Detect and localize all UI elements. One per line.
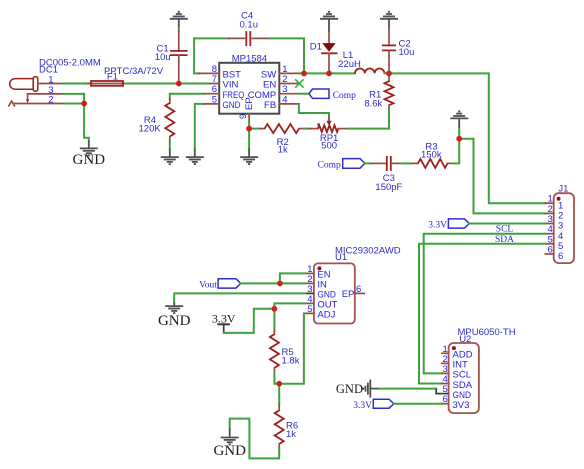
junction SW/C2/R1 [386, 71, 392, 77]
junction R3/GND node (top) [456, 136, 462, 142]
svg-text:6: 6 [356, 284, 361, 295]
junction C1/VIN [176, 81, 182, 87]
svg-text:ADJ: ADJ [317, 310, 335, 321]
U2 pin1 marker dot [452, 346, 456, 350]
junction R5/R6/ADJ [276, 381, 282, 387]
ground below R6 [229, 428, 231, 437]
svg-text:0.1u: 0.1u [240, 20, 259, 31]
MP1584 pin 4 FB stub [279, 103, 299, 105]
diode D1 [321, 32, 337, 73]
svg-text:MP1584: MP1584 [232, 53, 267, 64]
junction R3/GND node [456, 136, 462, 142]
U2 pin 1 ADD stub [442, 352, 449, 354]
wire EP down [248, 122, 250, 129]
wire Comp flag to C3 [365, 162, 372, 164]
svg-text:Comp: Comp [318, 161, 341, 171]
J1 pin1 marker dot [557, 197, 561, 201]
wire junction to R6 [278, 384, 280, 405]
capacitor C3 [372, 156, 402, 171]
svg-text:120K: 120K [139, 124, 162, 135]
junction R5/R6/ADJ (top) [276, 381, 282, 387]
junction C1/VIN (top) [176, 81, 182, 87]
J1 pin 6 stub [545, 253, 553, 255]
svg-text:5: 5 [212, 94, 217, 105]
junction EN/IN (top) [277, 281, 283, 287]
MP1584 pin 8 BST stub [199, 72, 219, 74]
DC1 pin 1 [38, 83, 63, 85]
svg-text:1k: 1k [278, 145, 288, 156]
capacitor C4 [229, 31, 269, 46]
wire C4 to SW [268, 38, 304, 73]
RP1 wiper arrow [328, 118, 330, 121]
MP1584 pin 2 EN stub [279, 83, 299, 85]
wire Vout to IN [241, 282, 305, 284]
svg-text:GND: GND [336, 382, 363, 396]
wire U1 GND to ground [174, 293, 305, 302]
junction SW/C4 [301, 71, 307, 77]
capacitor C1 [170, 19, 188, 84]
wire BST loop [194, 38, 229, 73]
ground above D1 [320, 12, 338, 19]
wire to GND (input) [84, 104, 89, 141]
connector DC1 barrel jack [9, 77, 64, 106]
U2 pin 3 SCL stub [442, 372, 449, 374]
junction SW/D1 (top) [326, 71, 332, 77]
junction SW/C4 (top) [301, 71, 307, 77]
wire DC1 pin3 [63, 94, 84, 104]
junction DC1 pin2/pin3 [81, 101, 87, 107]
svg-text:EP: EP [342, 289, 355, 300]
wire SDA J1 pin5 to U2 pin4 [419, 244, 545, 384]
ground above C2 [380, 12, 398, 19]
resistor R2 [260, 124, 304, 133]
resistor R3 [412, 159, 454, 168]
U1 pin 5 ADJ stub [305, 312, 314, 314]
svg-text:9: 9 [238, 114, 249, 119]
net flag Comp (pin3) [309, 89, 329, 98]
svg-text:6: 6 [548, 245, 553, 256]
svg-text:GND: GND [73, 152, 106, 168]
svg-text:1: 1 [48, 74, 53, 85]
svg-text:3.3V: 3.3V [353, 401, 372, 411]
U2 pin 6 3V3 stub [442, 403, 449, 405]
MP1584 pin 5 GND stub [204, 103, 219, 105]
svg-text:D1: D1 [310, 41, 322, 52]
J1 pin 1 stub [545, 202, 553, 204]
wire F1 to VIN [126, 83, 209, 85]
junction EP node [246, 126, 252, 132]
inductor L1 [355, 69, 384, 74]
capacitor C2 [382, 28, 396, 74]
resistor R4 [165, 94, 204, 149]
svg-text:3.3V: 3.3V [428, 220, 447, 230]
wire R5 to junction [274, 372, 279, 384]
potentiometer RP1 [309, 123, 349, 132]
resistor R5 [270, 331, 279, 372]
ground below EP [248, 149, 250, 157]
svg-text:150k: 150k [421, 150, 442, 161]
fuse F1 [88, 83, 127, 85]
MP1584 pin 7 VIN stub [210, 83, 220, 85]
svg-text:2: 2 [48, 94, 53, 105]
svg-text:5: 5 [307, 304, 312, 315]
wire R3 to ground node [454, 139, 460, 164]
wire DC1 pin2 [63, 103, 84, 105]
sensor U2 MPU6050 body [449, 343, 479, 413]
U1 pin 4 OUT stub [305, 302, 314, 304]
junction EN/IN [277, 281, 283, 287]
wire ADJ down [279, 313, 305, 383]
MP1584 pin 6 FREQ stub [204, 93, 219, 95]
no-connect X on EN [295, 79, 303, 87]
svg-text:SDA: SDA [495, 235, 514, 245]
ground above R3 node [450, 111, 468, 118]
resistor R1 [385, 73, 394, 109]
J1 pin 2 stub [545, 212, 553, 214]
svg-text:GND: GND [158, 313, 191, 329]
wire EN tie [280, 273, 305, 283]
J1 pin 5 stub [545, 243, 553, 245]
wire 3.3V to J1 pin3 [469, 223, 545, 225]
wire SW rail [299, 72, 355, 74]
U2 pin 2 INT stub [442, 362, 449, 364]
svg-text:10u: 10u [399, 47, 415, 58]
U1 pin 3 GND stub (black) [305, 292, 314, 294]
wire node to J1 pin2 [459, 139, 545, 214]
svg-text:3.3V: 3.3V [212, 311, 236, 325]
wire R6 to ground [230, 419, 280, 459]
ic U3 MP1584 body [219, 63, 279, 114]
wire FB to wiper [299, 104, 329, 118]
MP1584 pin 9 EP stub [248, 114, 250, 122]
svg-text:FB: FB [264, 100, 276, 111]
wire SCL J1 pin4 to U2 pin3 [424, 234, 546, 374]
ground below pin5 [194, 149, 196, 157]
svg-text:1k: 1k [286, 429, 296, 440]
U1 pin1 marker dot [317, 266, 321, 270]
U2 pin 5 GND stub (black) [442, 393, 449, 395]
svg-text:EP: EP [244, 97, 255, 110]
U1 pin 6 EP stub [355, 292, 365, 294]
J1 pin 3 stub [545, 223, 553, 225]
wire EP node to R2 [249, 128, 260, 130]
wire 3.3V to U2 pin6 [394, 403, 442, 405]
svg-text:6: 6 [558, 251, 563, 262]
connector J1 body [554, 193, 574, 263]
wire GND flag to U2 pin5 [379, 388, 436, 390]
wire C3 to R3 [402, 162, 412, 164]
junction SW/C2/R1 (top) [386, 71, 392, 77]
wire R2 to RP1 [304, 128, 309, 130]
ground below U1 GND wire [173, 303, 175, 307]
DC1 pin 3 [28, 93, 64, 95]
svg-text:3V3: 3V3 [453, 400, 470, 411]
ground above C1 [170, 12, 188, 19]
MP1584 pin 3 COMP stub [279, 93, 299, 95]
regulator U1 body [314, 263, 355, 323]
junction OUT/3.3V [272, 306, 278, 312]
resistor R6 [275, 404, 284, 448]
svg-text:GND: GND [223, 100, 241, 111]
svg-text:4: 4 [282, 94, 287, 105]
svg-text:Comp: Comp [333, 91, 356, 101]
MP1584 pin 1 SW stub [279, 72, 299, 74]
svg-text:150pF: 150pF [375, 182, 402, 193]
svg-text:500: 500 [321, 141, 337, 152]
wire GND pin5 [195, 104, 205, 149]
svg-text:F1: F1 [107, 72, 118, 83]
svg-text:1.8k: 1.8k [282, 355, 300, 366]
ground below R4 [169, 149, 171, 157]
wire DC1 pin1 to F1 [63, 83, 89, 85]
svg-text:U1: U1 [335, 252, 347, 263]
svg-text:GND: GND [213, 443, 246, 459]
svg-text:Vout: Vout [199, 280, 217, 290]
junction EP node (top) [246, 126, 252, 132]
wire COMP to flag [299, 93, 309, 95]
junction DC1 pin2/pin3 (top) [81, 101, 87, 107]
J1 pin 4 stub [545, 233, 553, 235]
svg-text:6: 6 [443, 394, 448, 405]
junction SW/D1 [326, 71, 332, 77]
wire node up to ground [458, 128, 460, 139]
svg-text:8.6k: 8.6k [364, 99, 382, 110]
svg-text:22uH: 22uH [338, 59, 361, 70]
svg-text:J1: J1 [558, 183, 568, 194]
junction OUT/3.3V (top) [272, 306, 278, 312]
svg-text:10u: 10u [155, 52, 171, 63]
wire OUT down to R5 [274, 303, 305, 330]
U2 pin 4 SDA stub [442, 383, 449, 385]
wire R1 to RP1 [348, 109, 389, 128]
wire EP node to ground [248, 129, 250, 149]
U1 pin 2 IN stub [305, 282, 314, 284]
wire 3.3V to OUT node [224, 309, 275, 333]
svg-text:U2: U2 [459, 334, 471, 345]
DC1 pin 2 [14, 103, 64, 105]
svg-text:SCL: SCL [496, 225, 514, 235]
DC1 switch lever [27, 94, 29, 100]
wire SW rail right [384, 73, 545, 203]
ground GND (input) [88, 140, 90, 148]
U1 pin 1 EN stub [305, 272, 314, 274]
